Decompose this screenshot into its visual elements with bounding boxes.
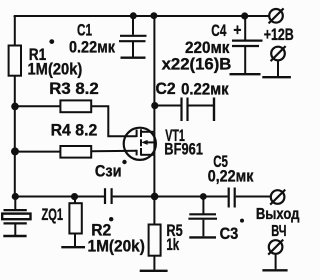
wire source vertical	[153, 155, 155, 197]
capacitor C5	[228, 188, 230, 208]
asterisk C3	[240, 219, 244, 223]
node row-C3	[200, 193, 207, 200]
wire R4 to gate1	[91, 150, 137, 153]
transistor substrate arrow	[141, 140, 147, 145]
ground ZQ1	[3, 235, 26, 237]
wire substrate vertical	[153, 132, 155, 155]
transistor substrate line	[144, 141, 154, 143]
transistor gate2 bar	[136, 130, 138, 138]
ground +12V	[262, 76, 291, 78]
wire bottom row right	[236, 196, 271, 198]
resistor R2 lead	[74, 197, 76, 204]
resistor R4	[60, 146, 91, 158]
svg-text:1M(20k): 1M(20k)	[88, 237, 145, 256]
transistor source stub	[141, 154, 154, 156]
ground R2	[61, 246, 85, 248]
node row-R2	[71, 193, 78, 200]
node rail-drain	[150, 12, 157, 19]
resistor R2	[69, 203, 81, 233]
ground C1	[121, 57, 146, 59]
node rail-C1	[130, 12, 137, 19]
node rail-R3	[11, 103, 19, 111]
wire left rail lower	[14, 76, 16, 197]
wire bottom row mid	[113, 196, 228, 198]
svg-text:ВЧ: ВЧ	[271, 223, 286, 240]
wire top rail	[14, 16, 269, 17]
wire R3 row left	[15, 105, 61, 107]
ground R5	[140, 270, 168, 272]
svg-text:R4 8.2: R4 8.2	[51, 121, 98, 140]
svg-text:BF961: BF961	[164, 140, 203, 159]
wire R4 row left	[15, 151, 61, 153]
crystal ZQ1 bottom plate	[4, 222, 27, 224]
ground C2	[213, 98, 215, 122]
ground C3	[189, 236, 216, 238]
wire left rail upper	[14, 15, 16, 47]
svg-text:Сзи: Сзи	[95, 162, 122, 181]
ground C4	[230, 73, 261, 75]
capacitor C1	[132, 16, 134, 35]
terminal output top	[271, 190, 285, 204]
capacitor C4	[244, 16, 246, 40]
crystal ZQ1 lead top	[14, 197, 16, 210]
asterisk Сзи	[122, 160, 126, 164]
wire terminal gnd lead	[277, 60, 279, 76]
crystal ZQ1 lead bottom	[14, 224, 16, 235]
node row-source	[151, 193, 159, 201]
svg-text:x22(16)В: x22(16)В	[162, 54, 232, 73]
transistor gate1 bar	[136, 150, 138, 156]
asterisk R1	[49, 39, 54, 44]
ground output	[262, 269, 287, 271]
crystal ZQ1 top plate	[4, 209, 27, 211]
svg-text:0,22мк: 0,22мк	[208, 167, 254, 186]
resistor R5 lead	[153, 197, 155, 225]
resistor R3	[60, 100, 91, 112]
resistor R1	[9, 46, 21, 76]
svg-text:+: +	[233, 21, 241, 40]
wire output gnd lead	[275, 254, 277, 269]
wire bottom row left	[15, 196, 104, 198]
terminal +12V top	[269, 9, 283, 23]
svg-text:1k: 1k	[166, 235, 179, 254]
svg-text:Выход: Выход	[256, 206, 300, 223]
svg-text:0.22мк: 0.22мк	[69, 38, 115, 57]
capacitor C3 lead	[202, 197, 204, 214]
wire R3 to gate2 corner	[91, 106, 137, 136]
transistor Q1 circle	[124, 128, 156, 160]
wire drain vertical	[153, 16, 155, 132]
svg-text:C3: C3	[220, 224, 239, 243]
crystal ZQ1 body	[2, 214, 30, 220]
svg-text:R3 8.2: R3 8.2	[49, 79, 98, 98]
svg-text:1M(20k): 1M(20k)	[28, 60, 83, 79]
transistor channel	[140, 129, 142, 137]
transistor drain stub	[141, 131, 154, 133]
capacitor Сзи	[104, 188, 106, 204]
node drain-C2	[151, 102, 158, 109]
capacitor C3	[189, 213, 216, 215]
node rail-R4	[11, 147, 19, 155]
node rail-ZQ1	[12, 193, 19, 200]
capacitor C2	[155, 105, 181, 107]
svg-text:C2: C2	[156, 79, 176, 98]
svg-text:0.22мк: 0.22мк	[181, 80, 229, 99]
terminal output bottom	[269, 240, 283, 254]
asterisk R2	[109, 217, 113, 221]
node rail-C4	[241, 12, 248, 19]
resistor R5	[149, 225, 161, 256]
svg-text:ZQ1: ZQ1	[42, 205, 64, 224]
svg-text:+12В: +12В	[264, 25, 294, 44]
terminal +12V bottom	[271, 47, 285, 61]
